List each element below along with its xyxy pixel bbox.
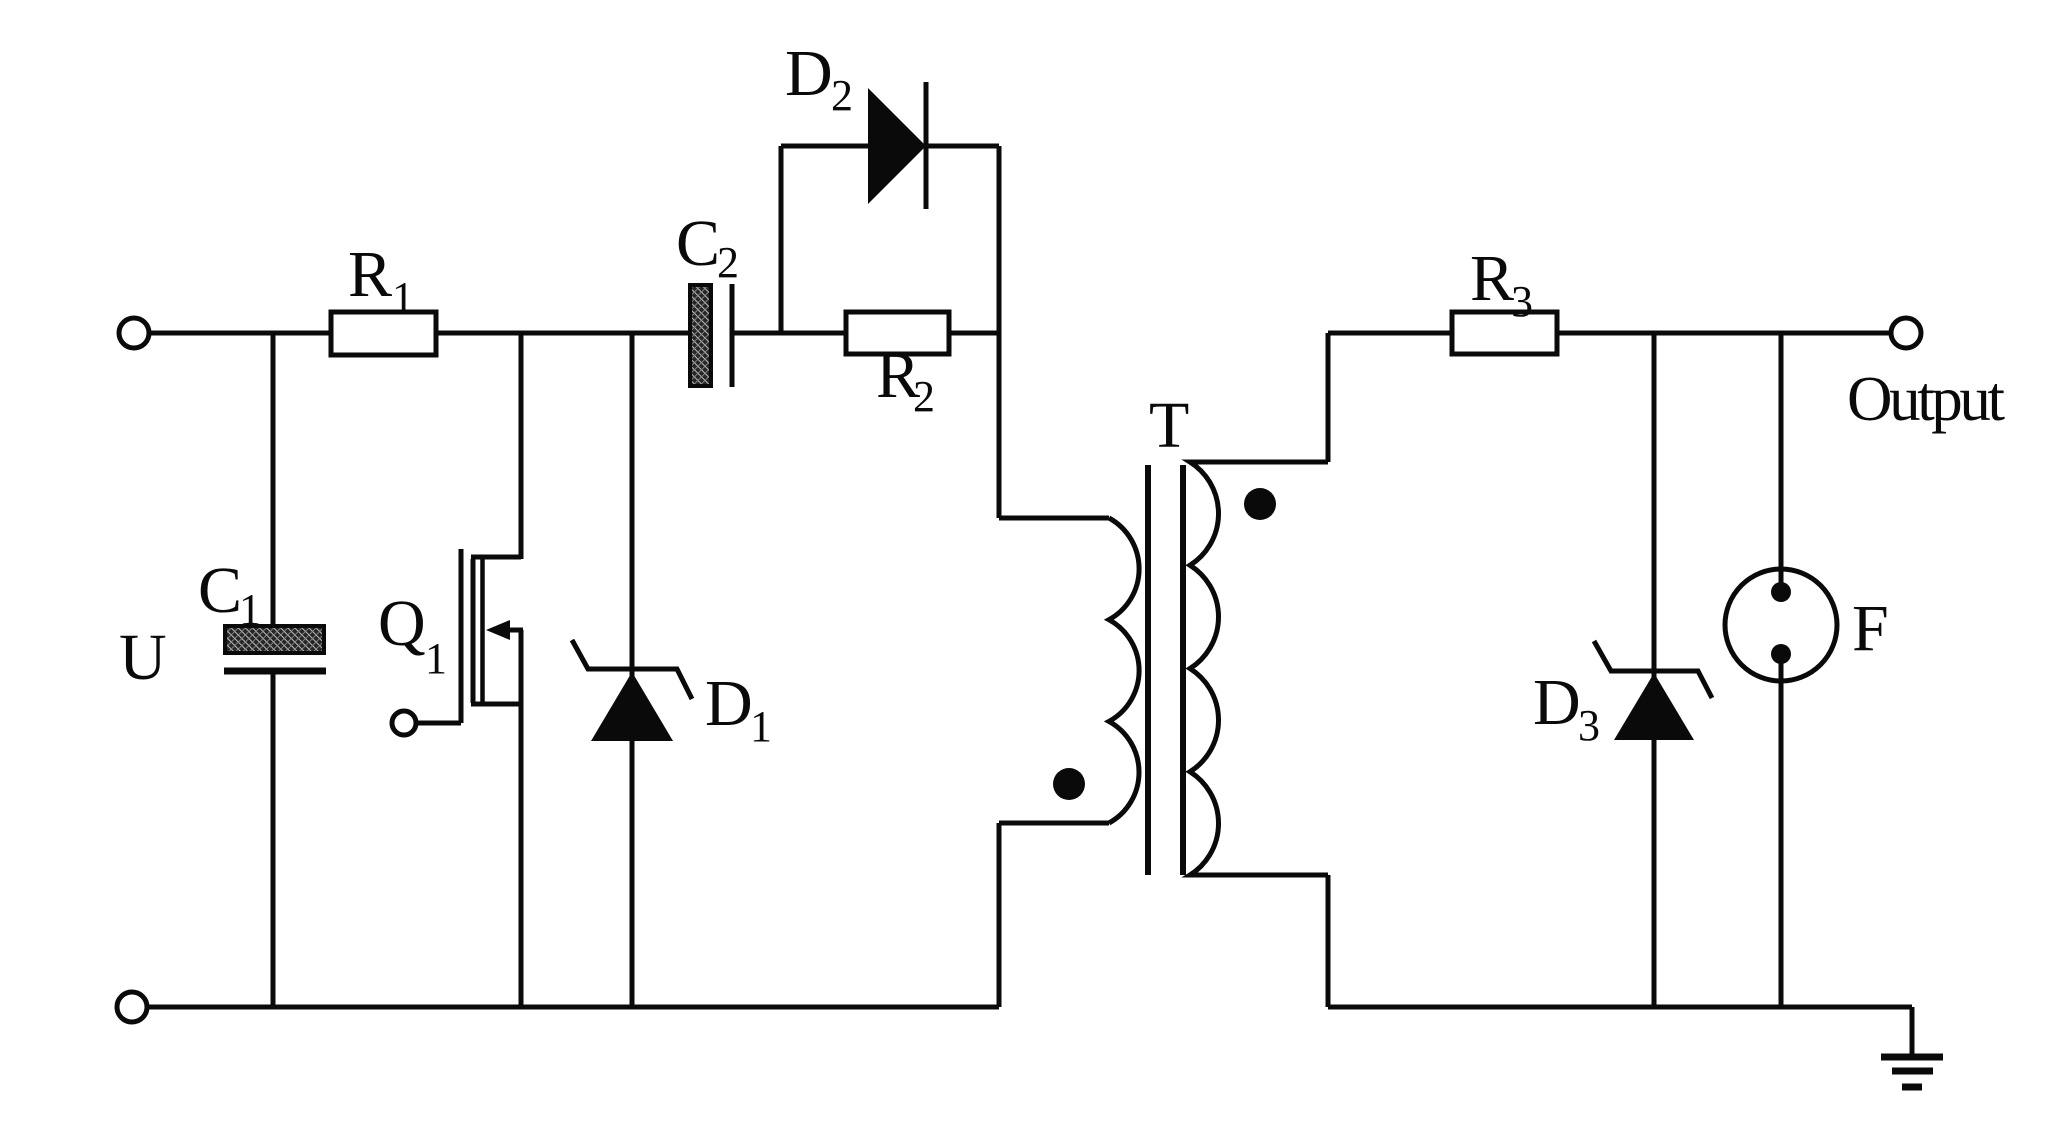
Q1 source tap [471, 702, 521, 707]
svg-text:1: 1 [750, 702, 772, 751]
input terminal bottom (-) [117, 992, 147, 1022]
wire D3 vertical [1652, 333, 1657, 1007]
svg-text:3: 3 [1578, 701, 1600, 750]
T primary top lead [999, 516, 1109, 521]
F envelope circle [1725, 569, 1837, 681]
svg-text:Output: Output [1847, 364, 2006, 434]
D2 cathode bar [924, 82, 929, 209]
zener diode D1 [572, 640, 692, 741]
transformer T [999, 462, 1328, 1007]
wire secondary bottom vertical [1326, 875, 1331, 1007]
ground bar 1 [1881, 1054, 1943, 1061]
wire D1 vertical [630, 333, 635, 1007]
wire D2/R2 node down to primary [997, 146, 1002, 518]
Q1 gate line [459, 549, 464, 723]
wire top-right rail [1557, 331, 1889, 336]
ground lead [1910, 1007, 1915, 1057]
ground bar 2 [1892, 1068, 1933, 1075]
resistor R2 [846, 312, 949, 354]
wire top-left rail [151, 331, 690, 336]
Q1 channel plate right [480, 559, 485, 703]
C2 right plate [730, 284, 735, 387]
wire secondary top to R3 vertical [1326, 333, 1331, 462]
svg-text:2: 2 [913, 372, 935, 421]
T primary winding [1109, 518, 1139, 823]
T core line left [1145, 465, 1151, 875]
wire bottom-right rail [1328, 1005, 1912, 1010]
svg-text:Q: Q [378, 587, 426, 660]
svg-text:T: T [1149, 389, 1189, 462]
svg-text:C: C [198, 554, 242, 627]
wire F vertical upper [1779, 333, 1784, 592]
T secondary winding with leads [1190, 462, 1328, 875]
T primary bottom lead [999, 821, 1109, 826]
capacitor C1 [224, 626, 326, 1007]
svg-text:2: 2 [717, 238, 739, 287]
node dot secondary [1244, 488, 1276, 520]
resistor R1 [331, 312, 436, 355]
wire primary to bottom rail [997, 823, 1002, 1007]
svg-text:D: D [785, 37, 833, 110]
D2 wire [781, 144, 999, 149]
F lower electrode dot [1771, 644, 1791, 664]
Q1 drain tap [471, 555, 521, 560]
wire R2 right [949, 331, 999, 336]
wire D2 left leg [779, 146, 784, 333]
wire R3 left horizontal [1328, 331, 1452, 336]
D3 cathode bar with bent ends [1594, 641, 1712, 698]
Q1 body tap [507, 628, 523, 633]
input terminal top (+) [119, 318, 149, 348]
svg-text:1: 1 [239, 585, 261, 634]
svg-text:1: 1 [425, 634, 447, 683]
ground bar 3 [1902, 1084, 1922, 1091]
D1 cathode bar with bent ends [572, 640, 692, 699]
output terminal [1891, 318, 1921, 348]
C2 hatched plate [690, 285, 711, 386]
D1 triangle [591, 672, 673, 741]
transistor Q1 (MOSFET) [392, 549, 523, 735]
Q1 gate lead [417, 721, 461, 726]
resistor R3 [1452, 312, 1557, 354]
svg-text:2: 2 [831, 71, 853, 120]
C1 lower plate [224, 668, 326, 675]
Q1 body arrow [486, 620, 510, 640]
Q1 channel plate left [471, 559, 476, 703]
wire F vertical lower [1779, 654, 1784, 1007]
svg-text:C: C [676, 207, 720, 280]
zener diode D3 [1594, 641, 1712, 740]
svg-text:D: D [1533, 666, 1581, 739]
svg-text:3: 3 [1511, 277, 1533, 326]
surge arrester F [1725, 569, 1837, 1007]
D3 triangle [1614, 673, 1694, 740]
wire Q1 drain vertical [519, 333, 524, 559]
diode D2 [781, 82, 999, 209]
ground [1881, 1007, 1943, 1087]
Q1 gate terminal [392, 711, 416, 735]
svg-text:F: F [1852, 592, 1889, 665]
capacitor C2 [690, 284, 732, 387]
wire C2 to R2 [734, 331, 846, 336]
F upper electrode dot [1771, 582, 1791, 602]
node dot primary [1053, 768, 1085, 800]
wire C1 branch lower [271, 674, 276, 1007]
C1 hatched plate [225, 626, 324, 653]
svg-text:D: D [705, 667, 753, 740]
wire bottom-left rail [149, 1005, 999, 1010]
wire C1 branch upper [271, 333, 276, 628]
wire Q1 source vertical [519, 630, 524, 1007]
svg-text:1: 1 [392, 273, 414, 322]
svg-text:U: U [119, 621, 167, 694]
svg-text:R: R [1470, 242, 1514, 315]
svg-text:R: R [348, 238, 392, 311]
T core line right [1180, 465, 1186, 875]
D2 triangle [868, 88, 926, 204]
